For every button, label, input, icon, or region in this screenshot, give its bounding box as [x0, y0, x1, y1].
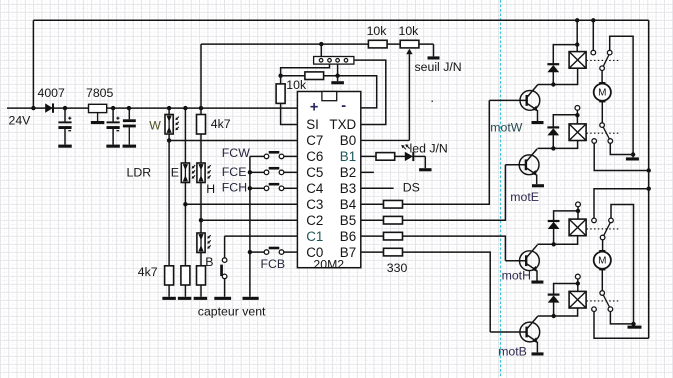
- svg-text:LDR: LDR: [127, 166, 152, 180]
- svg-text:C5: C5: [306, 165, 323, 180]
- wire B6 to motH stub: [361, 235, 384, 237]
- node C2 tap: [111, 106, 115, 110]
- wire contact B4 to gnd bus 2: [610, 312, 633, 324]
- resistor 330 B6 to motH: [384, 232, 403, 240]
- wire FCB left: [250, 251, 264, 253]
- wire FCW to pin: [284, 155, 298, 157]
- svg-text:24V: 24V: [9, 114, 32, 128]
- node diode D4 tap: [576, 209, 580, 213]
- ground LED: [419, 168, 431, 171]
- wire C1 to vent switch: [224, 236, 226, 258]
- wire pot row: [201, 43, 434, 45]
- wire B4 to motW stub: [361, 203, 384, 205]
- relay contacts K2: [592, 123, 613, 144]
- wire diode D3 top: [553, 115, 577, 128]
- svg-text:M: M: [598, 256, 606, 267]
- wire diode D4 bottom: [553, 229, 555, 245]
- wire vent to ground: [224, 279, 226, 297]
- wire diode D2 top: [553, 45, 577, 65]
- wire FCH to pin: [284, 187, 298, 189]
- resistor 4k7 pulldown E: [181, 266, 190, 285]
- potentiometer 10k seuil: [400, 40, 419, 48]
- node motH collector: [552, 242, 556, 246]
- ground: [194, 297, 208, 300]
- wire FCE left: [250, 171, 264, 173]
- wire relay K2 coil stem: [576, 110, 578, 124]
- relay coil K1: [569, 52, 586, 69]
- wire B1 to resistor: [361, 155, 376, 157]
- relay contacts K1: [591, 50, 612, 70]
- capacitor C1 electrolytic: [58, 108, 71, 145]
- svg-text:seuil J/N: seuil J/N: [415, 60, 462, 74]
- wire contact C3 to motor M2: [602, 240, 604, 252]
- svg-text:led J/N: led J/N: [410, 142, 448, 156]
- wire: [168, 285, 170, 297]
- node A3 bus: [647, 187, 651, 191]
- svg-text:C4: C4: [306, 181, 324, 196]
- relay coil K3: [569, 219, 586, 236]
- node diode D3 tap: [575, 113, 579, 117]
- motor M2: [594, 250, 611, 270]
- ground relay bus 1: [626, 157, 639, 160]
- potentiometer wiper arrow: [361, 49, 413, 141]
- ground: [162, 297, 176, 300]
- wire diode D5 top: [554, 284, 578, 295]
- wire K1 coil to motW collector: [538, 68, 578, 84]
- node 24V input junction: [31, 106, 35, 110]
- wire FCE to pin: [284, 171, 298, 173]
- wire 24V input riser: [32, 20, 34, 108]
- node motW collector: [551, 82, 555, 86]
- svg-text:FCW: FCW: [222, 146, 250, 160]
- node motE collector: [551, 146, 555, 150]
- resistor 4k7 pulldown W: [165, 266, 174, 285]
- wire FCB to pin: [284, 251, 298, 253]
- svg-text:B4: B4: [340, 197, 357, 212]
- wire +24V top rail: [33, 19, 648, 21]
- switch FCH: [264, 183, 284, 191]
- ground motW: [532, 121, 544, 124]
- wire B5 to motE stub: [361, 219, 384, 221]
- wire motW emitter: [537, 110, 539, 121]
- wire diode D3 bottom: [552, 135, 554, 148]
- ground FC common: [243, 297, 259, 300]
- wire contact A1 to +24: [592, 20, 594, 50]
- ground relay bus 2: [628, 326, 642, 329]
- relay contacts K4: [592, 291, 613, 312]
- node C3 tap: [183, 202, 187, 206]
- svg-text:motW: motW: [490, 121, 522, 135]
- LDR B: [197, 233, 211, 253]
- node contact A1 feed: [591, 18, 595, 22]
- ground seuil: [428, 56, 440, 59]
- node motB collector: [552, 314, 556, 318]
- svg-text:10k: 10k: [367, 24, 388, 38]
- node header pin1 tap: [319, 42, 323, 46]
- svg-text:7805: 7805: [86, 86, 114, 100]
- svg-text:W: W: [149, 119, 161, 133]
- wire B5 to motE route: [403, 165, 506, 220]
- switch capteur vent: [220, 258, 227, 279]
- node LDR W top: [167, 106, 171, 110]
- wire diode D2 bottom: [552, 72, 554, 85]
- svg-text:C1: C1: [306, 229, 323, 244]
- relay coil K4: [569, 291, 586, 308]
- svg-text:+: +: [310, 100, 318, 116]
- wire divider left: [281, 75, 305, 77]
- diode D4 flyback: [548, 221, 560, 229]
- wire contact B2 to gnd bus: [610, 143, 633, 154]
- wire relay K4 coil stem: [577, 279, 579, 291]
- svg-text:B: B: [205, 255, 213, 269]
- node diode D2 tap: [575, 42, 579, 46]
- transistor motH: [505, 245, 539, 272]
- resistor 4k7 top: [197, 115, 206, 135]
- svg-text:motE: motE: [510, 190, 539, 204]
- wire FC switch common: [249, 156, 251, 296]
- LDR E: [181, 163, 195, 183]
- wire contact B1 to gnd bus: [610, 36, 633, 157]
- ground motH: [531, 281, 543, 284]
- svg-text:C2: C2: [306, 213, 323, 228]
- wire FCH left: [250, 187, 264, 189]
- wire K1 actuation link dotted: [586, 59, 619, 61]
- wire E column lower: [184, 183, 186, 266]
- svg-text:M: M: [598, 88, 606, 99]
- relay coil K2: [569, 124, 586, 141]
- wire C7 row: [169, 139, 297, 141]
- wire relay K3 coil stem: [577, 207, 579, 219]
- wire B6 to motH route: [403, 236, 506, 261]
- svg-text:TXD: TXD: [329, 117, 356, 132]
- node relay K1 feed: [575, 18, 579, 22]
- resistor 10k series: [368, 40, 387, 48]
- wire contact A3 to +24 bus: [594, 189, 649, 218]
- ground header: [331, 81, 344, 84]
- node header gnd tap: [335, 74, 339, 78]
- node stray dot: [431, 100, 433, 102]
- regulator U2 7805: [89, 104, 107, 121]
- wire K2 coil to motE collector: [538, 141, 578, 149]
- node diode D5 tap: [576, 281, 580, 285]
- wire H to B: [200, 183, 202, 234]
- node C2 tap: [199, 218, 203, 222]
- switch FCB: [264, 247, 284, 255]
- svg-text:E: E: [171, 166, 179, 180]
- wire: [424, 156, 426, 168]
- svg-text:C3: C3: [306, 197, 323, 212]
- node LDR E top: [183, 106, 187, 110]
- wire K4 actuation link dotted: [586, 300, 619, 302]
- wire FCW left: [250, 155, 264, 157]
- svg-text:SI: SI: [306, 117, 319, 132]
- wire +24 right bus: [648, 20, 650, 338]
- wire motB emitter: [536, 342, 538, 353]
- wire divider to chip minus: [324, 76, 377, 108]
- wire LED to ground: [413, 155, 425, 157]
- LDR W: [165, 115, 179, 135]
- wire contact A2 to +24 bus: [594, 143, 649, 170]
- wire C1 row: [225, 235, 298, 237]
- wire: [168, 108, 170, 114]
- svg-text:B7: B7: [340, 245, 356, 260]
- ground 7805: [91, 121, 105, 124]
- diode D5 flyback: [548, 295, 560, 303]
- connector programming header: [314, 57, 354, 65]
- wire motor M1 to contact C2: [601, 101, 603, 123]
- svg-text:4k7: 4k7: [211, 117, 231, 131]
- relay contacts K3: [592, 218, 614, 240]
- node FC common: [248, 186, 252, 190]
- svg-text:motH: motH: [502, 268, 531, 282]
- ground: [123, 145, 137, 148]
- node 4k7 top: [199, 106, 203, 110]
- svg-text:DS: DS: [403, 181, 420, 195]
- wire motH emitter: [536, 270, 538, 280]
- resistor 10k SI pulldown: [276, 84, 285, 104]
- wire W column: [168, 134, 170, 266]
- svg-text:B5: B5: [340, 213, 356, 228]
- page break dashed line: [500, 0, 502, 378]
- wire B7 to motB stub: [361, 251, 384, 253]
- diode D1 4007: [45, 103, 53, 112]
- node C1 tap: [63, 106, 67, 110]
- resistor 10k programming: [305, 72, 324, 80]
- svg-text:capteur vent: capteur vent: [198, 305, 266, 319]
- wire diode D5 bottom: [553, 302, 555, 316]
- wire C2 row: [201, 219, 297, 221]
- svg-text:4007: 4007: [38, 86, 66, 100]
- switch FCE: [264, 167, 284, 175]
- wire pot to ground: [433, 44, 435, 56]
- resistor 330 B5 to motE: [384, 216, 403, 224]
- wire: [200, 285, 202, 297]
- svg-text:motB: motB: [498, 344, 527, 358]
- node FCB tap: [248, 250, 252, 254]
- svg-text:C0: C0: [306, 245, 323, 260]
- wire header pin3 to ground: [337, 64, 339, 81]
- svg-text:B3: B3: [340, 181, 356, 196]
- wire C3 row: [185, 203, 297, 205]
- relay K2 coil terminal: [575, 106, 580, 111]
- wire header pin2 to SI divider: [281, 64, 330, 84]
- svg-text:FCH: FCH: [222, 181, 247, 195]
- wire K4 coil to motB collector: [538, 308, 578, 316]
- wire: [200, 134, 202, 163]
- svg-text:FCE: FCE: [222, 165, 247, 179]
- wire: [200, 253, 202, 266]
- wire diode D4 top: [554, 211, 578, 221]
- svg-text:B6: B6: [340, 229, 356, 244]
- svg-text:10k: 10k: [286, 78, 307, 92]
- wire relay K1 coil feed: [576, 20, 578, 51]
- node C3 tap: [127, 106, 131, 110]
- wire pot feed riser: [200, 44, 202, 114]
- resistor 330 B4 to motW: [384, 200, 403, 208]
- wire K3 coil to motH collector: [537, 236, 577, 245]
- wire K2 actuation link dotted: [586, 132, 619, 134]
- node FC common: [248, 170, 252, 174]
- resistor 330 led: [376, 153, 395, 161]
- wire header pin4 to TXD: [354, 60, 386, 124]
- resistor 4k7 pulldown B: [197, 266, 206, 285]
- ground vent: [214, 297, 231, 300]
- node gnd bus 2: [631, 322, 635, 326]
- svg-text:10k: 10k: [399, 24, 420, 38]
- ground: [178, 297, 192, 300]
- wire +5V rail: [7, 107, 297, 109]
- svg-text:C7: C7: [306, 133, 323, 148]
- wire B2 stub: [361, 171, 374, 173]
- wire: [184, 285, 186, 297]
- svg-text:B0: B0: [340, 133, 356, 148]
- wire motE emitter: [536, 174, 538, 184]
- svg-text:B2: B2: [340, 165, 356, 180]
- svg-text:330: 330: [387, 261, 408, 275]
- svg-text:B1: B1: [340, 149, 356, 164]
- wire B3 stub DS: [361, 187, 394, 189]
- capacitor C3 ceramic: [123, 108, 136, 145]
- wire K3 actuation link dotted: [586, 228, 619, 230]
- diode D3 flyback: [547, 127, 559, 135]
- transistor motW: [489, 85, 540, 112]
- wire motor M2 to contact C4: [601, 269, 603, 291]
- wire B7 to motB route: [403, 252, 491, 332]
- svg-text:FCB: FCB: [261, 257, 286, 271]
- ground: [106, 145, 120, 148]
- svg-text:H: H: [206, 182, 215, 196]
- wire contact C1 to motor: [601, 71, 603, 84]
- svg-text:-: -: [341, 98, 346, 114]
- wire bus bottom to contact A4: [594, 312, 649, 339]
- resistor 330 B7 to motB: [384, 248, 403, 256]
- node SI divider: [278, 74, 282, 78]
- svg-text:4k7: 4k7: [138, 265, 158, 279]
- node C7 tap: [167, 138, 171, 142]
- LDR H: [197, 163, 211, 183]
- LED led J/N: [401, 144, 413, 161]
- node gnd bus: [631, 152, 635, 156]
- wire E column upper: [184, 108, 186, 163]
- wire header pin1: [320, 44, 322, 56]
- node A2 bus: [647, 168, 651, 172]
- wire contact B3 to gnd bus 2: [611, 205, 634, 326]
- transistor motE: [505, 149, 539, 176]
- ground motB: [532, 352, 544, 355]
- switch FCW: [264, 151, 284, 159]
- transistor motB: [490, 316, 539, 343]
- IC U1 PICAXE 20M2: [297, 92, 360, 268]
- wire: [395, 155, 405, 157]
- ground: [58, 145, 72, 148]
- ground motE: [532, 184, 544, 187]
- diode D2 flyback: [547, 64, 559, 72]
- motor M1: [594, 82, 611, 102]
- wire to SI pin: [281, 103, 298, 124]
- wire B4 to motW route: [403, 100, 490, 204]
- capacitor C2 electrolytic: [107, 108, 120, 145]
- svg-text:C6: C6: [306, 149, 323, 164]
- relay K3 coil terminal: [576, 202, 581, 207]
- relay K4 coil terminal: [575, 274, 580, 279]
